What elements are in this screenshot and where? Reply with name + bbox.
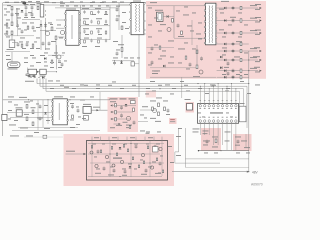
wire audio v2 <box>109 141 111 177</box>
diode D802 <box>44 24 47 26</box>
resistor R836 <box>132 157 133 160</box>
resistor R839 <box>156 158 157 161</box>
label audio in <box>66 151 75 152</box>
transistor Q804 <box>199 70 203 74</box>
wire deg v <box>27 68 29 72</box>
resistor R847 <box>27 26 29 29</box>
label T801 <box>133 0 141 3</box>
wire snb h2 <box>163 16 174 18</box>
pin T802 pins <box>204 4 217 44</box>
node highlighted audio region <box>64 134 175 186</box>
wire left border <box>2 3 4 136</box>
capacitor C810 <box>33 74 36 78</box>
relay RL801 <box>37 69 46 74</box>
transistor Q812 <box>159 147 162 150</box>
wire snb v <box>173 6 175 38</box>
diode D811 <box>21 10 24 12</box>
capacitor C830 <box>71 105 74 109</box>
wire top rail <box>3 4 131 6</box>
resistor R801 <box>11 22 13 26</box>
wire audio h2 <box>88 153 160 155</box>
capacitor C848 <box>16 24 19 28</box>
label bl text2 <box>26 135 33 138</box>
wire degauss rail <box>27 71 57 73</box>
wire bridge v1 <box>40 20 42 50</box>
label lc <box>152 71 160 74</box>
svg-text:48V: 48V <box>252 170 259 174</box>
node highlighted sense region <box>146 91 156 98</box>
junction b+ <box>28 99 71 100</box>
wire bl partial <box>24 136 63 138</box>
inductor L801 <box>9 40 15 48</box>
label stby <box>93 106 100 109</box>
wire lc rail <box>150 76 216 78</box>
resistor R835 <box>127 149 128 152</box>
label C803 <box>24 3 29 6</box>
node highlighted pin region A <box>201 128 221 151</box>
transistor Q802 <box>60 30 64 34</box>
resistor R834 <box>116 153 117 156</box>
capacitor grid C811-C818 <box>83 10 107 43</box>
wire audio v1 <box>91 141 93 177</box>
resistor R806 <box>26 74 29 76</box>
wire t1 tail <box>121 35 123 58</box>
arrow audio in <box>84 153 86 155</box>
label net1 <box>193 129 200 133</box>
wire ic in1 <box>56 19 65 21</box>
junction snub <box>114 60 122 61</box>
resistor R808 <box>121 48 123 52</box>
wire grid v <box>80 5 82 44</box>
capacitor C822 <box>116 18 119 22</box>
wire audio h3 <box>90 162 164 164</box>
resistor R844 <box>43 135 47 138</box>
op-amp IC801 <box>66 11 79 46</box>
wire mid link <box>140 109 156 111</box>
label +B <box>252 170 259 174</box>
diode D808 <box>119 147 122 149</box>
wire mid v <box>191 20 193 45</box>
thermistor TH801 <box>28 69 37 74</box>
capacitor C840 <box>103 167 106 171</box>
wire filt v2 <box>31 10 33 14</box>
wire grid rail2 <box>81 25 111 27</box>
capacitor C841 <box>113 169 116 173</box>
resistor R844c <box>143 161 144 164</box>
label between texts <box>225 132 231 142</box>
resistor R803 <box>37 6 39 9</box>
wire stb v <box>99 92 101 110</box>
transistor Q815 <box>112 164 115 167</box>
capacitor C829 <box>39 117 42 121</box>
resistor R807 <box>131 62 135 66</box>
resistor R805 <box>55 36 57 39</box>
wire audio v3 <box>130 141 132 177</box>
wire ml h2 <box>10 117 52 119</box>
wire bus1 <box>37 83 249 85</box>
resistor R838 <box>147 146 148 149</box>
resistor R825 <box>158 103 160 107</box>
capacitor C854 <box>151 47 154 51</box>
arrow stby <box>97 109 99 111</box>
op-amp IC802 <box>53 99 68 125</box>
wire net v1 <box>175 128 179 163</box>
label bl text1 <box>10 135 19 138</box>
label ml texts <box>8 97 50 129</box>
wire ml v1 <box>37 100 39 130</box>
diode D812 <box>44 57 46 60</box>
wire t1 top <box>119 4 131 6</box>
label sec texts <box>219 4 261 68</box>
label b+ rail <box>19 96 27 99</box>
wire ml bottom2 <box>18 127 78 129</box>
op-amp audio module box <box>87 141 168 181</box>
wire grid v2 <box>109 5 111 40</box>
capacitor C849 <box>21 30 24 34</box>
junction deg <box>56 71 57 72</box>
label R803 <box>37 2 42 5</box>
resistor R809 <box>121 26 123 29</box>
resistor R830 <box>215 139 217 143</box>
wire ic in2 <box>56 27 65 29</box>
diode D815 <box>220 66 222 69</box>
wire sec vert <box>248 51 249 172</box>
optocoupler PC802 <box>187 104 193 111</box>
label Q806 <box>142 105 148 108</box>
resistor R820 <box>115 111 117 114</box>
pin audio box top stubs <box>92 137 162 141</box>
wire bus3 <box>43 89 244 107</box>
resistor R813 <box>196 65 198 69</box>
wire filt h <box>22 19 40 21</box>
wire input chain <box>11 10 13 22</box>
pin IC804 bottom pins <box>199 120 237 122</box>
label pink texts <box>150 1 229 64</box>
wire upper rail <box>55 7 119 9</box>
label IC804 pn inner top <box>199 107 236 110</box>
resistor R831 <box>91 146 92 149</box>
label F801 <box>7 4 11 7</box>
resistor R833 <box>111 147 112 150</box>
capacitor C805 <box>25 13 28 17</box>
transistor Q809 <box>120 160 123 163</box>
wire stby link <box>91 109 107 111</box>
capacitor C833 <box>120 114 123 118</box>
pin IC804 top pins <box>199 105 237 107</box>
resistor R802 <box>11 31 13 35</box>
wire ml h1 <box>7 112 52 114</box>
label standby texts <box>110 98 136 102</box>
label C808 <box>45 48 50 51</box>
diode D805 <box>167 15 169 18</box>
resistor R821 <box>115 118 117 121</box>
regulator IC803 <box>83 107 91 114</box>
diode rectifier row y44 <box>217 42 249 46</box>
capacitor C824 <box>177 24 180 28</box>
wire audio in <box>66 153 87 155</box>
resistor R848 <box>21 44 23 47</box>
label IC804 name <box>210 112 223 113</box>
label above audio <box>123 122 150 134</box>
resistor R815 <box>26 117 28 121</box>
diode D814 <box>220 56 222 59</box>
wire stair v2 <box>39 79 41 87</box>
node highlighted pin region B <box>233 134 252 151</box>
capacitor C825 <box>200 57 203 61</box>
resistor R824 <box>152 107 154 111</box>
capacitor C847 <box>133 121 136 125</box>
arrow stby in1 <box>110 104 112 106</box>
resistor R819 <box>115 104 117 107</box>
resistor R837 <box>138 165 139 168</box>
label C801 <box>15 12 19 15</box>
wire filt v1 <box>25 10 27 14</box>
transistor Q813 <box>57 55 61 59</box>
resistor R810 <box>172 19 174 23</box>
capacitor C820 <box>116 52 119 56</box>
diode rectifier row y51 <box>217 48 262 53</box>
diode rectifier row y60 <box>217 57 262 62</box>
junction audio dots <box>109 143 150 177</box>
wire xl h2 <box>5 51 30 53</box>
wire mid h <box>174 37 205 39</box>
label IC802 inner <box>59 103 60 120</box>
resistor R817 <box>32 122 34 126</box>
label grid rows <box>82 8 102 38</box>
label IC801 vertical text <box>71 15 72 39</box>
diode rectifier row y70 <box>217 68 262 73</box>
wire audio v5 <box>161 141 163 176</box>
diode rectifier row y77 <box>217 75 249 79</box>
wire rail 163 <box>175 162 220 164</box>
wire stair v1 <box>36 79 38 84</box>
wire ic in3 <box>58 36 65 38</box>
wire degauss up <box>56 45 58 69</box>
capacitor C843 <box>135 145 138 149</box>
wire xl v <box>17 20 19 36</box>
wire audio v4 <box>149 141 151 177</box>
node highlighted ref region <box>169 118 177 124</box>
wire lc v <box>196 45 198 65</box>
label IC801 <box>66 8 76 11</box>
label mid texts <box>150 98 168 122</box>
arrow standby out <box>114 123 121 125</box>
svg-text:A09070: A09070 <box>251 183 263 187</box>
label audio bottom texts <box>95 173 161 176</box>
transistor Q814 <box>90 151 93 154</box>
node highlighted standby region <box>108 97 139 132</box>
wire stby h1 <box>113 105 136 107</box>
resistor R853 <box>185 56 187 59</box>
wire rail 172 <box>172 171 249 173</box>
label audio module <box>113 158 122 159</box>
capacitor C831 <box>77 109 80 113</box>
resistor R840 <box>162 170 163 173</box>
wire pink drop <box>181 77 182 98</box>
transistor Q803 <box>167 28 171 32</box>
capacitor C839 <box>97 150 100 154</box>
transformer T801 <box>131 3 144 35</box>
transistor Q807 <box>95 164 98 167</box>
wire stby h2 <box>113 111 133 113</box>
capacitor C802 <box>17 43 20 47</box>
junction bridge column <box>45 11 46 32</box>
resistor R832 <box>100 150 101 153</box>
wire ml v2 <box>42 100 44 127</box>
optocoupler PC801 <box>16 110 22 116</box>
label P801 <box>8 68 18 71</box>
resistor R816 <box>32 110 34 114</box>
diode D801 <box>40 24 43 26</box>
capacitor C844 <box>145 169 148 173</box>
label K801 <box>240 102 245 105</box>
resistor R814 <box>26 105 28 109</box>
connector P802 <box>2 115 7 121</box>
resistor R852 <box>159 46 161 49</box>
label IC804 pn top <box>200 99 237 102</box>
wire b+ rail <box>3 99 110 101</box>
capacitor C804 <box>31 6 34 10</box>
resistor R826 <box>158 112 160 116</box>
label pinA texts <box>203 131 219 148</box>
capacitor C832 <box>120 106 123 110</box>
wire net v2 <box>184 128 186 167</box>
choke L802 <box>40 5 44 18</box>
junction bus dots <box>138 83 227 89</box>
wire grid rail1 <box>81 9 111 11</box>
transistor Q806 <box>152 108 156 112</box>
wire ml bottom <box>12 130 100 132</box>
label R811 <box>178 35 184 38</box>
wire mid link2 <box>138 121 148 123</box>
label pinB texts <box>235 137 250 149</box>
capacitor C845b <box>159 162 162 166</box>
transistor Q810 <box>141 153 144 156</box>
transistor Q801 <box>45 31 49 35</box>
pin IC802 pins <box>52 101 69 122</box>
label left parts <box>24 102 43 119</box>
resistor R844b <box>123 145 124 148</box>
wire grid rail3 <box>81 39 111 41</box>
capacitor C838 <box>237 140 240 144</box>
wire sec h2 <box>150 67 196 69</box>
resistor R823 <box>133 108 135 111</box>
wire top border <box>3 2 146 4</box>
label R808 <box>118 43 124 46</box>
resistor R845 <box>6 23 8 26</box>
label IC802 <box>54 95 63 98</box>
label C823 <box>155 9 163 12</box>
wire right vert stub <box>246 94 248 106</box>
wire input chain2 <box>11 34 13 48</box>
diode rectifier row y8 <box>217 5 262 10</box>
capacitor C837 <box>206 140 209 144</box>
label code A09070 <box>251 183 263 187</box>
capacitor C855 <box>151 61 154 65</box>
inductor T802 windings <box>209 6 213 43</box>
wire xl h1 <box>5 35 34 37</box>
label PC802 <box>185 98 191 101</box>
capacitor C828 <box>39 105 42 109</box>
capacitor C808 <box>48 42 51 46</box>
wire branch <box>12 42 18 44</box>
diode D813 <box>163 65 165 68</box>
label TH801 <box>29 75 36 78</box>
wire rail 167 <box>185 166 248 168</box>
pin IC801 pins <box>65 13 81 45</box>
wire audio h4 <box>88 176 162 178</box>
label Q804 <box>193 75 200 78</box>
capacitor C851 <box>26 43 29 47</box>
label C804 <box>30 3 35 6</box>
resistor R843 <box>129 126 131 129</box>
label IC804 pn inner bottom <box>199 116 236 119</box>
pin T801 pins <box>130 3 146 35</box>
wire ml v3 <box>47 100 49 124</box>
capacitor C842 <box>124 170 127 174</box>
label standby inner <box>110 125 122 128</box>
capacitor C801 <box>11 13 14 17</box>
resistor R827 <box>164 107 166 111</box>
relay K801 <box>239 106 246 122</box>
wire snub rail <box>112 60 134 62</box>
label ref text <box>170 119 175 122</box>
resistor R818 <box>72 115 74 118</box>
wire q levels <box>40 30 56 32</box>
resistor R850 <box>51 60 53 63</box>
wire stair v3 <box>42 79 44 89</box>
label IC803 <box>83 103 91 106</box>
wire stair v4 <box>45 79 47 92</box>
wire bus4 <box>46 91 239 106</box>
arrow stby in3 <box>110 118 112 120</box>
connector audio out box <box>153 147 159 153</box>
capacitor C852 <box>61 63 64 67</box>
capacitor C803 <box>25 6 28 10</box>
transistor Q811 <box>150 166 153 169</box>
arrow stby in2 <box>110 111 112 113</box>
wire audio h1 <box>88 143 164 145</box>
capacitor C856 <box>189 63 192 67</box>
node highlighted secondary region <box>146 1 266 79</box>
arrow rail 172 <box>247 171 249 173</box>
label L801 <box>7 48 14 51</box>
capacitor C850 <box>32 26 35 30</box>
wire t1 feed <box>118 3 120 30</box>
wire rail 159 <box>185 158 248 160</box>
transformer T802 <box>206 3 216 45</box>
capacitor C806 <box>31 13 34 17</box>
capacitor C819 <box>113 61 116 65</box>
label extra texts <box>4 2 260 174</box>
label scattered values <box>5 1 260 163</box>
wire drain v <box>138 35 140 97</box>
label RL801 <box>40 75 46 78</box>
capacitor C845 <box>154 145 157 149</box>
wire snub link <box>134 63 139 65</box>
label cluster <box>25 80 34 83</box>
capacitor C826 <box>227 62 230 66</box>
wire mains pair <box>17 8 18 24</box>
capacitor C809 <box>28 74 31 78</box>
diode rectifier row y33 <box>217 30 262 35</box>
resistor R849 <box>32 44 34 47</box>
diode rectifier row y20 <box>217 18 262 23</box>
wire q drop <box>55 40 57 59</box>
transistor Q808 <box>105 155 108 158</box>
diode D809 <box>129 166 132 168</box>
capacitor C821 <box>116 8 119 12</box>
